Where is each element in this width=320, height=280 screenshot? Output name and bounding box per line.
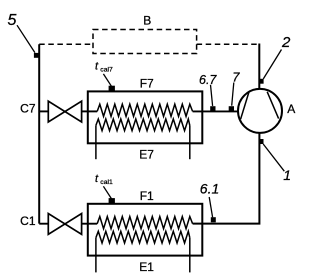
valve C7	[48, 101, 81, 122]
node 1 square	[259, 139, 264, 144]
sensor square tcal7	[109, 86, 115, 92]
label tcal1 pointer	[103, 186, 111, 198]
svg-text:E7: E7	[139, 148, 154, 162]
svg-text:6.1: 6.1	[200, 180, 219, 196]
svg-text:1: 1	[283, 167, 291, 183]
svg-text:E1: E1	[139, 260, 154, 274]
coil F7 top row	[97, 104, 192, 116]
coil F7 second row	[96, 119, 190, 131]
wire C1 inlet	[39, 223, 48, 225]
wire C7 inlet	[39, 110, 48, 112]
svg-text:C7: C7	[20, 102, 36, 116]
svg-text:F1: F1	[140, 189, 154, 203]
svg-text:C1: C1	[20, 214, 36, 228]
coil F1 left leg	[95, 238, 97, 273]
wire left vertical pipe	[38, 44, 40, 223]
compressor A left chord	[241, 92, 249, 119]
wire C7 outlet into box	[82, 110, 98, 112]
node 7 square	[229, 106, 234, 111]
coil F1 second row	[96, 231, 190, 243]
coil F7 left leg	[95, 125, 97, 159]
label 2 pointer	[263, 50, 281, 79]
svg-text:2: 2	[281, 34, 291, 51]
evaporator F7 box	[88, 91, 203, 143]
label 6.7 pointer	[211, 85, 213, 106]
svg-text:7: 7	[232, 70, 240, 85]
evaporator F1 box	[88, 204, 203, 256]
coil F7 right leg	[189, 125, 191, 159]
wire dashed left connector	[39, 43, 93, 45]
svg-text:B: B	[143, 13, 151, 27]
block B dashed rectangle	[93, 30, 197, 54]
label 7 pointer	[232, 83, 234, 106]
wire compressor bottom to corner and F1 exit	[193, 133, 260, 224]
coil F1 right leg	[189, 238, 191, 273]
svg-text:F7: F7	[140, 77, 154, 91]
node 2 square	[259, 79, 264, 84]
coil F1 top row	[97, 217, 192, 229]
label 1 pointer	[263, 144, 284, 171]
node 6.7 square	[210, 106, 215, 111]
label tcal7 pointer	[103, 74, 111, 86]
svg-text:cal1: cal1	[100, 179, 113, 186]
valve C1	[48, 214, 81, 235]
svg-text:A: A	[287, 102, 295, 116]
sensor square tcal1	[109, 198, 115, 204]
compressor A right chord	[267, 92, 278, 119]
svg-text:5: 5	[8, 12, 17, 29]
node 6.1 square	[211, 217, 216, 222]
wire right vertical to compressor	[258, 44, 260, 90]
compressor A circle	[238, 89, 282, 133]
label 6.1 pointer	[209, 197, 212, 217]
svg-text:cal7: cal7	[100, 66, 113, 73]
label 5 pointer	[17, 25, 35, 52]
wire C1 outlet into box	[82, 223, 98, 225]
svg-text:6.7: 6.7	[199, 73, 217, 87]
node 5 square	[34, 53, 39, 58]
wire F7 exit to compressor	[193, 110, 238, 112]
wire dashed right connector	[197, 43, 260, 45]
